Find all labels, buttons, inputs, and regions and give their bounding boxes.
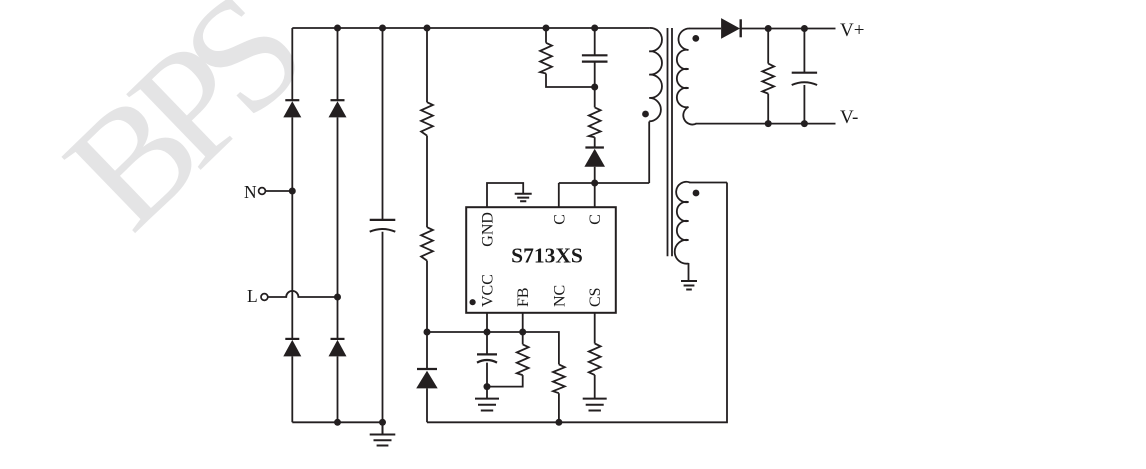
- resistor CS R: [589, 344, 601, 375]
- terminal N circle: [259, 188, 266, 195]
- wire FB pin stub: [522, 313, 524, 332]
- wire VCC row: [427, 331, 523, 333]
- wire VCC pin stub: [486, 313, 488, 332]
- svg-text:VCC: VCC: [480, 274, 497, 307]
- wire startup resistor column: [426, 28, 428, 422]
- diode bridge D1: [283, 101, 301, 117]
- svg-text:C: C: [551, 214, 568, 225]
- transformer core: [668, 28, 673, 256]
- svg-text:V-: V-: [840, 107, 858, 128]
- wire C2 pin stub: [594, 183, 596, 207]
- wire L terminal with hop over first column: [268, 291, 338, 297]
- svg-text:C: C: [587, 214, 604, 225]
- capacitor VCC: [477, 354, 497, 362]
- wire bridge left column: [291, 28, 293, 422]
- diode bridge D4: [329, 340, 347, 357]
- svg-text:N: N: [244, 182, 257, 202]
- wire VCC cap leads: [486, 332, 488, 399]
- diode bridge D3: [283, 340, 301, 357]
- svg-text:GND: GND: [480, 212, 497, 247]
- svg-text:L: L: [247, 286, 258, 306]
- diode output rectifier: [721, 18, 740, 39]
- transformer aux winding: [675, 182, 690, 264]
- svg-text:FB: FB: [515, 287, 532, 307]
- wire bottom left rail: [292, 421, 382, 423]
- wire output resistor leads: [767, 29, 769, 124]
- junction dots bottom left rail: [334, 419, 341, 426]
- resistor startup R1: [421, 102, 433, 135]
- wire bridge right column: [337, 28, 339, 422]
- wire aux top: [690, 182, 728, 184]
- junction dots top rail: [334, 25, 341, 32]
- ground main bridge: [370, 422, 396, 445]
- capacitor bulk electrolytic: [370, 219, 396, 221]
- wire aux bottom stub: [688, 263, 690, 281]
- wire snubber cap leads: [594, 28, 596, 87]
- wire bottom right rail: [427, 183, 727, 423]
- diode clamp: [584, 149, 605, 167]
- junction dot N: [289, 188, 296, 195]
- junction dot C pin rail: [591, 180, 598, 187]
- transformer primary winding: [649, 28, 662, 121]
- wire clamp chain: [594, 87, 596, 183]
- svg-text:S713XS: S713XS: [511, 244, 583, 268]
- wire primary bottom: [648, 122, 650, 184]
- junction dot FB cap: [484, 383, 491, 390]
- phase dot primary: [642, 111, 649, 118]
- resistor FB R: [517, 344, 529, 375]
- wire secondary bottom rail: [696, 123, 836, 125]
- IC U1 pin-1 dot: [470, 299, 476, 305]
- junction dot snubber: [591, 84, 598, 91]
- resistor startup R2: [421, 227, 433, 260]
- junction dot bottom rail: [555, 419, 562, 426]
- ground CS resistor: [583, 399, 607, 411]
- diode bridge D2: [329, 101, 347, 117]
- wire C1 pin stub: [558, 183, 560, 207]
- wire CS pin lead: [594, 313, 596, 399]
- wire top rail primary side: [292, 27, 649, 29]
- svg-text:BPS: BPS: [32, 0, 331, 262]
- wire C-pin rail: [559, 182, 649, 184]
- phase dot aux: [693, 190, 700, 197]
- terminal L circle: [261, 294, 268, 301]
- diode VCC supply: [416, 371, 438, 389]
- phase dot secondary: [692, 35, 699, 42]
- junction dot L: [334, 294, 341, 301]
- junction dots secondary: [765, 25, 772, 32]
- resistor clamp R: [589, 107, 601, 137]
- svg-text:NC: NC: [551, 285, 568, 307]
- resistor output load R: [762, 64, 774, 94]
- resistor NC column R: [553, 364, 565, 393]
- capacitor snubber: [582, 55, 608, 61]
- wire GND pin to ground: [487, 183, 523, 207]
- transformer secondary winding: [677, 28, 697, 124]
- ground aux winding: [681, 281, 697, 290]
- wire secondary top rail: [690, 28, 836, 30]
- wire N terminal: [265, 190, 292, 192]
- ground IC GND pin: [515, 194, 532, 201]
- ground VCC cap: [475, 399, 499, 411]
- IC U1 S713XS body: [466, 207, 616, 313]
- wire output cap leads: [803, 29, 805, 124]
- wire snubber resistor leads: [546, 28, 595, 87]
- capacitor output electrolytic: [792, 72, 817, 74]
- resistor snubber R: [540, 43, 552, 74]
- wire FB right branch: [523, 332, 559, 422]
- svg-text:CS: CS: [587, 287, 604, 307]
- svg-text:V+: V+: [840, 20, 864, 41]
- junction dots VCC row: [424, 329, 431, 336]
- wire bulk cap column: [382, 28, 384, 422]
- wire FB resistor leads: [487, 332, 523, 387]
